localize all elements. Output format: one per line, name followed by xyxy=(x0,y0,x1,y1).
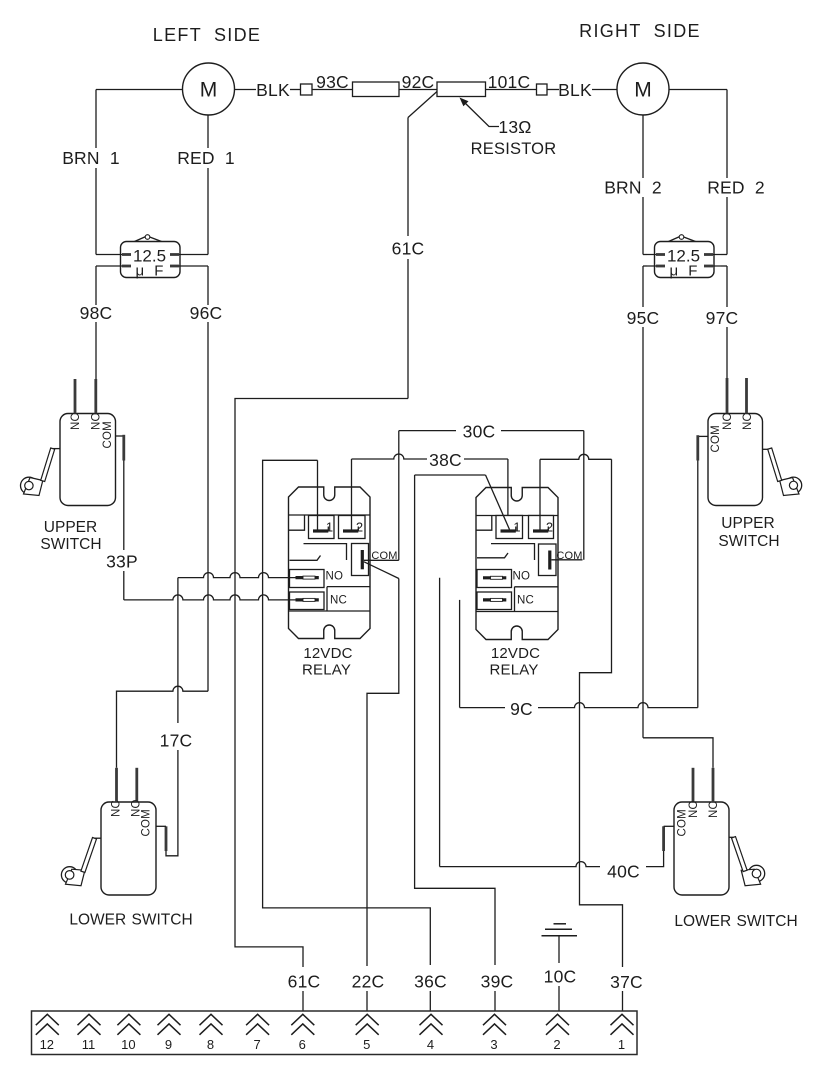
connector pin 2 xyxy=(546,1014,569,1025)
wire 33P lower xyxy=(123,571,125,600)
svg-text:11: 11 xyxy=(82,1037,96,1052)
svg-text:61C: 61C xyxy=(392,239,425,259)
wire 38C horizontal right xyxy=(464,458,508,460)
pin NC stub xyxy=(745,378,748,414)
wire BRN1 lower xyxy=(95,168,97,255)
wire 98C upper xyxy=(95,266,97,305)
relay K2 inner step xyxy=(476,516,492,531)
svg-text:COM: COM xyxy=(102,421,114,448)
wire RED1 lower xyxy=(207,168,209,255)
svg-text:22C: 22C xyxy=(352,972,385,992)
svg-text:98C: 98C xyxy=(80,303,113,323)
svg-text:BRN 2: BRN 2 xyxy=(604,178,662,198)
svg-text:1: 1 xyxy=(513,520,520,535)
svg-text:LEFT SIDE: LEFT SIDE xyxy=(153,25,261,45)
lever arm and roller xyxy=(763,448,770,450)
svg-text:RIGHT SIDE: RIGHT SIDE xyxy=(579,21,701,41)
wire 96C jog to lower switch NC with hop xyxy=(117,686,209,768)
svg-text:7: 7 xyxy=(253,1037,260,1052)
wire 22C leg from K1 COM diagonal xyxy=(367,579,399,967)
wire ground stem xyxy=(558,936,560,963)
relay K2 terminal 2 box xyxy=(529,516,554,539)
svg-text:M: M xyxy=(634,79,652,102)
wire 17C lower xyxy=(166,750,178,856)
svg-text:96C: 96C xyxy=(190,303,223,323)
lower switch right COM bar xyxy=(662,826,665,851)
wire square to BLK right xyxy=(547,89,559,91)
connector pin 6 xyxy=(291,1014,314,1025)
pin NO stub xyxy=(692,768,695,802)
relay K1 inner partition xyxy=(304,544,347,560)
wire 61C: resistor to vertical xyxy=(407,118,409,237)
relay K1 inner step xyxy=(289,515,305,530)
relay K1 body xyxy=(289,487,371,639)
connector pin 5 xyxy=(356,1014,379,1025)
motor M left xyxy=(183,63,235,115)
svg-text:6: 6 xyxy=(299,1037,306,1052)
pin NC xyxy=(712,768,715,802)
wire motor-right to BLK label xyxy=(235,89,257,91)
wire motor right to RED2 corner xyxy=(669,89,727,91)
relay K1 NO box xyxy=(290,570,325,588)
wire 98C lower to upper switch NO xyxy=(95,322,97,379)
pin NO xyxy=(94,379,97,414)
lever arm and roller xyxy=(729,836,734,838)
svg-text:3: 3 xyxy=(490,1037,497,1052)
svg-text:2: 2 xyxy=(553,1037,560,1052)
wire square to resistor1 xyxy=(312,89,353,91)
wire motor-left to BRN1 corner xyxy=(96,89,183,91)
relay K1 inner bottom line xyxy=(289,610,371,612)
svg-text:NC: NC xyxy=(742,413,754,430)
svg-text:LOWER SWITCH: LOWER SWITCH xyxy=(69,912,192,929)
connector pin 12 xyxy=(36,1014,59,1025)
pin NC stub xyxy=(74,379,77,414)
svg-text:39C: 39C xyxy=(481,972,514,992)
svg-text:NO: NO xyxy=(513,571,531,583)
pin COM stub xyxy=(698,435,708,437)
relay K2 inner bottom line xyxy=(476,611,558,613)
svg-text:12VDC: 12VDC xyxy=(303,645,352,662)
svg-text:NC: NC xyxy=(70,413,82,430)
wire 40C horizontal with hop xyxy=(440,862,600,867)
relay K2 NC box xyxy=(477,592,512,610)
wire 39C to pin 3 xyxy=(494,991,496,1012)
wire 33P upper from COM xyxy=(123,461,125,551)
svg-text:13Ω: 13Ω xyxy=(498,117,531,137)
svg-text:2: 2 xyxy=(546,520,553,535)
svg-text:93C: 93C xyxy=(316,72,349,92)
svg-text:NO: NO xyxy=(326,571,344,583)
svg-text:17C: 17C xyxy=(160,730,193,750)
svg-text:UPPER: UPPER xyxy=(721,515,774,532)
svg-text:NC: NC xyxy=(330,595,347,607)
wire cap left to BRN1 xyxy=(96,254,113,256)
wire BRN2 lower xyxy=(642,197,644,255)
connector pin 1 xyxy=(611,1014,634,1025)
svg-text:10: 10 xyxy=(121,1037,135,1052)
arrow leader to resistor xyxy=(462,100,499,127)
svg-text:10C: 10C xyxy=(544,967,577,987)
wire 10C to pin 2 xyxy=(558,986,560,1012)
svg-text:COM: COM xyxy=(141,809,153,836)
wire RED2 lower xyxy=(726,197,728,255)
svg-text:1: 1 xyxy=(618,1037,625,1052)
wire BLK to motor right xyxy=(592,89,617,91)
wire 30C: K1 COM drop xyxy=(398,431,400,561)
wire 61C vertical lower xyxy=(407,259,409,399)
connector pin 4 xyxy=(420,1014,443,1025)
svg-text:37C: 37C xyxy=(610,972,643,992)
ground symbol xyxy=(542,924,578,936)
svg-text:NO: NO xyxy=(688,800,700,818)
svg-text:5: 5 xyxy=(363,1037,370,1052)
lower switch left COM bar xyxy=(165,826,168,851)
svg-text:NC: NC xyxy=(111,800,123,817)
wire K2 COM to 30C xyxy=(552,559,583,561)
relay K1 inner lines right of NO/NC xyxy=(327,587,370,611)
svg-text:NC: NC xyxy=(517,595,534,607)
wire cap right stubs xyxy=(643,254,647,256)
pin COM stub xyxy=(116,435,124,437)
svg-text:RESISTOR: RESISTOR xyxy=(471,140,557,158)
motor M right xyxy=(617,63,669,115)
wire 96C long vertical xyxy=(207,322,209,691)
relay K1 terminal 2 box xyxy=(339,516,366,539)
relay K2 inner top line xyxy=(476,515,558,517)
upper switch left (microswitch S1) xyxy=(21,379,124,506)
wire 9C horizontal left xyxy=(460,707,505,709)
svg-text:12VDC: 12VDC xyxy=(491,645,540,662)
wire 96C upper xyxy=(207,266,209,305)
relay K2 NO box xyxy=(477,570,512,588)
wire BRN2 upper xyxy=(642,115,644,178)
relay K2 terminal 1 box xyxy=(496,516,523,539)
svg-text:LOWER SWITCH: LOWER SWITCH xyxy=(674,913,797,930)
wire between rectangles xyxy=(399,89,437,91)
svg-text:μ F: μ F xyxy=(670,263,701,280)
relay K2 body xyxy=(476,488,558,640)
wire BLK to square xyxy=(290,89,301,91)
wire K2 NC down to 9C xyxy=(459,600,461,708)
svg-text:COM: COM xyxy=(677,809,689,836)
wire K1 COM diagonal to 22C leg xyxy=(364,562,399,579)
wire RED2 upper xyxy=(726,90,728,179)
wire RED1 upper xyxy=(207,115,209,148)
svg-text:12: 12 xyxy=(40,1037,54,1052)
wire 40C to lower switch COM xyxy=(646,851,664,867)
wire 95C corner to right lower switch NC xyxy=(643,738,713,768)
svg-text:NC: NC xyxy=(708,801,720,818)
lever arm and roller xyxy=(53,448,60,450)
wire BRN1 upper xyxy=(95,90,97,149)
wire 61C diagonal from resistor xyxy=(408,92,437,118)
svg-text:33P: 33P xyxy=(106,552,138,572)
wire into K1 terminal 1 xyxy=(317,460,319,529)
svg-text:4: 4 xyxy=(427,1037,434,1052)
wire 9C horizontal right with hops xyxy=(538,703,698,708)
svg-text:95C: 95C xyxy=(627,308,660,328)
relay K2 inner partition xyxy=(491,544,535,560)
connector pin 3 xyxy=(483,1014,506,1025)
wire 36C leg from K1 terminal1 xyxy=(263,460,431,965)
svg-text:NO: NO xyxy=(91,412,103,430)
wire 61C jog left and down xyxy=(235,399,408,968)
wire into K2 terminal 2 xyxy=(539,459,541,529)
connector square right xyxy=(537,84,548,95)
svg-text:97C: 97C xyxy=(706,308,739,328)
svg-text:M: M xyxy=(200,79,218,102)
svg-text:38C: 38C xyxy=(429,450,462,470)
wire into K1 terminal 2 xyxy=(351,459,353,530)
wire bridge K2-T2 to 37C leg with hop xyxy=(540,454,612,459)
wire 30C horizontal left xyxy=(399,430,456,432)
wire horizontal feeding diagonal xyxy=(415,474,486,476)
wire 38C drop into K2 terminal 1 box xyxy=(507,459,509,516)
svg-text:61C: 61C xyxy=(288,972,321,992)
svg-text:COM: COM xyxy=(710,425,722,452)
wire K1 NC feed with hops xyxy=(124,595,296,600)
relay K2 COM box xyxy=(539,544,557,576)
svg-text:BRN 1: BRN 1 xyxy=(62,148,120,168)
wire K1 COM to 30C xyxy=(364,559,399,561)
capacitor C2 12.5uF right xyxy=(647,235,721,280)
wire 97C upper xyxy=(726,266,728,307)
connector pin 10 xyxy=(117,1014,140,1025)
resistor R 13ohm body xyxy=(437,82,486,97)
svg-text:9: 9 xyxy=(165,1037,172,1052)
svg-text:1: 1 xyxy=(326,520,333,535)
relay K1 terminal 1 box xyxy=(309,516,335,539)
wire 95C long vertical xyxy=(642,327,644,738)
lever arm and roller xyxy=(95,837,102,839)
svg-text:40C: 40C xyxy=(607,862,640,882)
pin NC xyxy=(115,768,118,802)
relay K1 armature xyxy=(290,556,321,561)
wire 17C vertical xyxy=(177,578,179,723)
relay K2 inner lines right of NO/NC xyxy=(515,587,559,612)
connector pin 7 xyxy=(246,1014,269,1025)
lower switch left (microswitch S3) xyxy=(61,768,156,895)
wire K2 NO down to 40C xyxy=(439,578,441,867)
svg-text:2: 2 xyxy=(356,520,363,535)
svg-text:BLK: BLK xyxy=(558,80,592,100)
svg-text:RELAY: RELAY xyxy=(489,662,538,679)
wire K1 NO feed with hops xyxy=(178,573,296,578)
wire 95C upper xyxy=(642,266,644,307)
svg-text:36C: 36C xyxy=(414,972,447,992)
svg-text:BLK: BLK xyxy=(256,80,290,100)
svg-text:30C: 30C xyxy=(463,422,496,442)
wire 36C to pin 4 xyxy=(429,991,431,1012)
wire diagonal into K2 terminal 1 xyxy=(486,475,510,530)
wire 30C horizontal right xyxy=(501,430,584,432)
wire 97C lower to upper switch NO xyxy=(726,327,728,378)
wire resistor to square right xyxy=(486,89,537,91)
connector J1 body xyxy=(32,1011,638,1055)
svg-text:SWITCH: SWITCH xyxy=(718,533,779,550)
wire 37C to pin 1 xyxy=(622,991,624,1012)
svg-text:RED 1: RED 1 xyxy=(177,148,235,168)
wire 61C to pin 6 xyxy=(302,991,304,1012)
pin NO xyxy=(726,378,729,414)
svg-text:RELAY: RELAY xyxy=(302,662,351,679)
svg-text:NO: NO xyxy=(722,412,734,430)
resistor body left (93C-92C) xyxy=(353,82,400,97)
svg-text:RED 2: RED 2 xyxy=(707,178,765,198)
connector pin 8 xyxy=(200,1014,223,1025)
connector pin 9 xyxy=(158,1014,181,1025)
upper switch right (microswitch S2) xyxy=(698,378,802,506)
wire 30C: K2 COM drop xyxy=(583,431,585,560)
pin NO stub xyxy=(135,768,138,802)
svg-text:UPPER: UPPER xyxy=(44,519,97,536)
svg-text:SWITCH: SWITCH xyxy=(40,536,101,553)
lower switch right (microswitch S4) xyxy=(674,768,765,895)
connector pin 11 xyxy=(78,1014,101,1025)
capacitor C1 12.5uF left xyxy=(113,235,187,280)
relay K1 COM box xyxy=(352,544,369,576)
svg-text:9C: 9C xyxy=(510,699,533,719)
wire 22C to pin 5 xyxy=(366,991,368,1012)
svg-text:8: 8 xyxy=(207,1037,214,1052)
relay K2 armature xyxy=(477,553,508,558)
connector square left xyxy=(301,84,313,95)
wire 38C horizontal left with hop xyxy=(352,454,428,459)
wire 9C up to right upper switch COM xyxy=(697,461,699,708)
svg-text:μ F: μ F xyxy=(136,263,167,280)
wire 37C leg down right side xyxy=(580,459,623,967)
relay K1 inner top line xyxy=(289,514,371,516)
relay K1 NC box xyxy=(290,592,325,610)
wire 39C leg from K2 terminal1 feed xyxy=(415,475,495,965)
